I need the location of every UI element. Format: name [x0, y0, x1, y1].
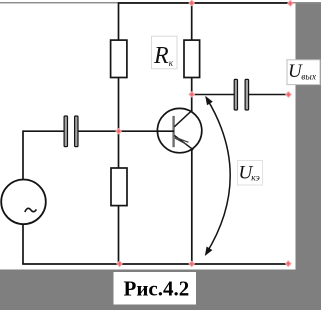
svg-text:кэ: кэ	[251, 174, 260, 184]
transistor VT1 body circle	[157, 108, 201, 152]
wire base horizontal right	[78, 130, 175, 132]
label box Uke	[238, 161, 263, 186]
wire left branch vertical	[118, 2, 120, 264]
wire top rail	[119, 2, 291, 4]
source G1 sine tilde	[25, 208, 37, 212]
node top collector junction	[188, 0, 195, 6]
transistor VT1 emitter lead	[174, 135, 193, 149]
label box Uvyh	[287, 60, 320, 85]
transistor VT1 base bar	[172, 116, 174, 147]
wire output to terminal	[248, 94, 288, 96]
transistor VT1 base lead inside	[158, 130, 175, 132]
capacitor C1 input plate right	[75, 116, 78, 147]
source G1 circle	[1, 180, 46, 225]
node output terminal	[285, 91, 292, 98]
capacitor C1 input plate left	[64, 116, 67, 147]
transistor VT1 collector lead	[174, 110, 192, 127]
wire source bottom vertical	[22, 224, 24, 265]
wire emitter vertical	[191, 149, 193, 265]
resistor R1 top-left	[111, 40, 127, 77]
node base junction	[115, 128, 122, 135]
top border hairline	[0, 2, 321, 3]
right gray margin	[296, 3, 321, 310]
wire base horizontal left	[23, 130, 65, 132]
Uke measurement arc	[206, 98, 230, 253]
Uke arrowhead bottom	[205, 247, 213, 257]
node bottom right terminal	[285, 260, 292, 267]
resistor R2 bias lower-left	[111, 168, 127, 206]
wire source top vertical	[22, 130, 24, 180]
capacitor C2 output plate right	[245, 79, 249, 110]
resistor Rk collector	[184, 40, 200, 77]
caption box	[114, 272, 197, 305]
wire bottom rail	[22, 263, 288, 265]
node top right terminal	[287, 0, 294, 7]
Uke arrowhead top	[205, 96, 213, 106]
transistor VT1 emitter arrow barb lower	[175, 138, 187, 144]
svg-text:вых: вых	[301, 72, 317, 82]
svg-text:R: R	[153, 43, 169, 69]
svg-text:Рис.4.2: Рис.4.2	[124, 276, 190, 300]
label box Rk	[152, 36, 178, 69]
node collector output junction	[188, 91, 195, 98]
transistor VT1 emitter arrow barb upper	[175, 137, 189, 142]
node emitter bottom junction	[188, 261, 195, 268]
wire collector branch vertical	[191, 2, 193, 112]
wire output horizontal	[192, 94, 235, 96]
bottom gray margin	[0, 270, 321, 310]
capacitor C2 output plate left	[234, 79, 237, 110]
node bias bottom junction	[116, 260, 123, 267]
